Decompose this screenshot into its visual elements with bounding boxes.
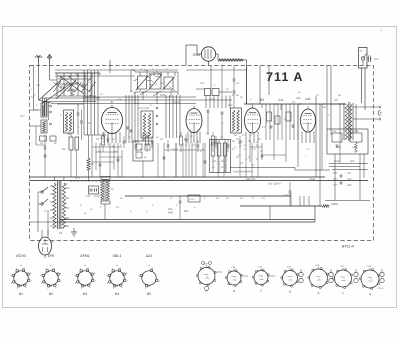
- svg-text:EM4: EM4: [193, 53, 200, 57]
- svg-text:C45: C45: [322, 106, 327, 109]
- svg-text:o: o: [319, 278, 320, 280]
- svg-text:B711-A: B711-A: [342, 245, 354, 249]
- svg-text:C34 C35: C34 C35: [139, 107, 149, 110]
- svg-text:C4G: C4G: [367, 265, 372, 268]
- svg-text:C4F: C4F: [340, 265, 345, 268]
- svg-text:AZ1: AZ1: [145, 254, 152, 258]
- svg-text:C##/C##/#00/#0#: C##/C##/#00/#0#: [233, 171, 253, 174]
- svg-text:C4F: C4F: [333, 172, 338, 175]
- svg-text:B#F: B#F: [228, 104, 233, 107]
- svg-text:400: 400: [350, 160, 355, 163]
- svg-text:C: C: [60, 114, 62, 117]
- svg-text:C#|L#: C#|L#: [189, 198, 196, 201]
- svg-text:c 17: c 17: [306, 148, 311, 151]
- svg-text:LC#: LC#: [36, 84, 41, 87]
- svg-text:2°: 2°: [44, 210, 46, 213]
- svg-text:A#A: A#A: [212, 160, 217, 163]
- svg-text:o: o: [371, 279, 372, 281]
- svg-text:B1: B1: [19, 292, 23, 296]
- svg-text:A46: A46: [304, 97, 311, 101]
- svg-text:C4B: C4B: [231, 266, 236, 269]
- svg-text:#F: #F: [91, 163, 94, 166]
- svg-text:EF9: EF9: [48, 254, 54, 258]
- svg-text:C17: C17: [262, 126, 267, 129]
- svg-text:o: o: [235, 278, 236, 280]
- svg-text:2F: 2F: [51, 241, 54, 244]
- svg-text:C: C: [80, 204, 82, 207]
- svg-text:R4R: R4R: [168, 212, 173, 215]
- svg-text:A#7: A#7: [334, 99, 339, 102]
- svg-text:4V7: 4V7: [333, 184, 338, 187]
- svg-text:#0##: #0##: [94, 195, 100, 198]
- svg-text:D: D: [289, 290, 291, 294]
- svg-text:B4: B4: [115, 292, 119, 296]
- svg-text:C: C: [284, 118, 286, 121]
- svg-text:C41: C41: [278, 98, 284, 102]
- svg-text:P#A#: P#A#: [309, 178, 316, 181]
- svg-text:o: o: [344, 279, 345, 281]
- svg-text:≠4: ≠4: [59, 231, 63, 235]
- svg-text:ECH3: ECH3: [16, 254, 25, 258]
- svg-text:C12: C12: [160, 82, 165, 85]
- svg-text:o: o: [207, 276, 208, 278]
- svg-text:C4D: C4D: [287, 266, 292, 269]
- svg-text:B3: B3: [83, 292, 87, 296]
- svg-text:(C7: (C7: [20, 114, 25, 118]
- svg-text:o: o: [262, 278, 263, 280]
- svg-text:2#0: 2#0: [67, 133, 72, 136]
- svg-text:E: E: [318, 291, 320, 295]
- svg-text:B5: B5: [147, 292, 151, 296]
- svg-text:79#: 79#: [347, 172, 352, 175]
- svg-text:C: C: [252, 197, 254, 200]
- svg-text:o: o: [291, 278, 292, 280]
- svg-text:B2: B2: [49, 292, 53, 296]
- svg-text:C48: C48: [336, 146, 341, 149]
- svg-text:C4C: C4C: [258, 266, 263, 269]
- svg-text:EFM1: EFM1: [80, 254, 89, 258]
- svg-text:#3#: #3#: [86, 195, 91, 198]
- svg-text:#4#/##P: #4#/##P: [350, 130, 359, 133]
- svg-text:F70413: F70413: [377, 287, 385, 290]
- svg-text:C4E: C4E: [316, 264, 321, 267]
- svg-text:A55: A55: [347, 184, 352, 187]
- svg-text:4F: 4F: [54, 142, 57, 145]
- svg-text:C: C: [152, 68, 154, 71]
- svg-text:F: F: [342, 291, 344, 295]
- svg-text:C71: C71: [75, 177, 80, 180]
- svg-text:R1F: R1F: [331, 203, 336, 206]
- svg-text:⊥: ⊥: [305, 155, 307, 158]
- svg-text:C: C: [120, 144, 122, 147]
- svg-text:C##: C##: [332, 130, 337, 133]
- svg-text:AZF 11000: AZF 11000: [268, 183, 281, 186]
- svg-text:4C: 4C: [236, 156, 239, 159]
- svg-text:B3: B3: [260, 98, 264, 102]
- svg-text:R9#: R9#: [184, 210, 189, 213]
- svg-text:A#6: A#6: [296, 97, 301, 100]
- svg-text:(Cv: (Cv: [375, 58, 380, 61]
- svg-text:C2#: C2#: [200, 82, 205, 85]
- svg-text:C: C: [254, 148, 256, 151]
- svg-text:4F: 4F: [65, 183, 68, 186]
- svg-text:C29: C29: [160, 93, 166, 97]
- svg-text:74/B ###: 74/B ###: [245, 178, 256, 181]
- svg-text:#M: #M: [62, 148, 65, 151]
- svg-text:B: B: [233, 289, 235, 293]
- svg-text:C##: C##: [210, 98, 215, 101]
- svg-text:C7#: C7#: [284, 194, 289, 197]
- svg-text:EBL1: EBL1: [113, 254, 122, 258]
- svg-text:711 A: 711 A: [266, 70, 303, 84]
